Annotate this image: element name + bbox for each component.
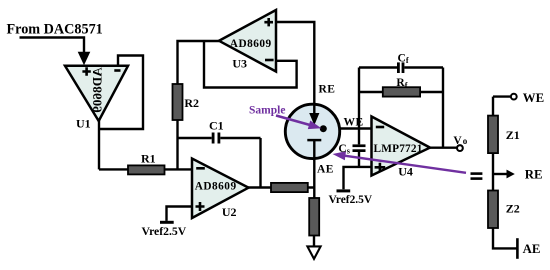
svg-text:WE: WE xyxy=(344,116,364,128)
svg-text:C1: C1 xyxy=(209,119,224,133)
svg-text:RE: RE xyxy=(319,84,336,96)
svg-text:RE: RE xyxy=(525,168,543,182)
svg-text:AD8609: AD8609 xyxy=(230,38,272,50)
svg-text:U3: U3 xyxy=(232,57,247,71)
svg-text:Z1: Z1 xyxy=(506,128,520,142)
svg-text:Sample: Sample xyxy=(249,105,285,117)
svg-text:U4: U4 xyxy=(398,165,413,179)
svg-text:Vo: Vo xyxy=(453,135,467,147)
svg-text:Vref2.5V: Vref2.5V xyxy=(142,225,187,238)
svg-text:AD8609: AD8609 xyxy=(195,181,237,193)
svg-text:R2: R2 xyxy=(184,96,199,110)
svg-text:U1: U1 xyxy=(76,117,91,131)
svg-text:U2: U2 xyxy=(222,205,237,219)
svg-text:AE: AE xyxy=(317,164,334,176)
svg-text:WE: WE xyxy=(523,91,544,105)
svg-text:From DAC8571: From DAC8571 xyxy=(7,21,103,37)
svg-text:AE: AE xyxy=(523,242,541,256)
svg-text:R1: R1 xyxy=(141,152,156,166)
svg-text:Z2: Z2 xyxy=(506,202,520,216)
svg-text:AD8609: AD8609 xyxy=(90,67,105,113)
svg-text:LMP7721: LMP7721 xyxy=(374,143,423,155)
svg-text:Vref2.5V: Vref2.5V xyxy=(329,194,373,206)
